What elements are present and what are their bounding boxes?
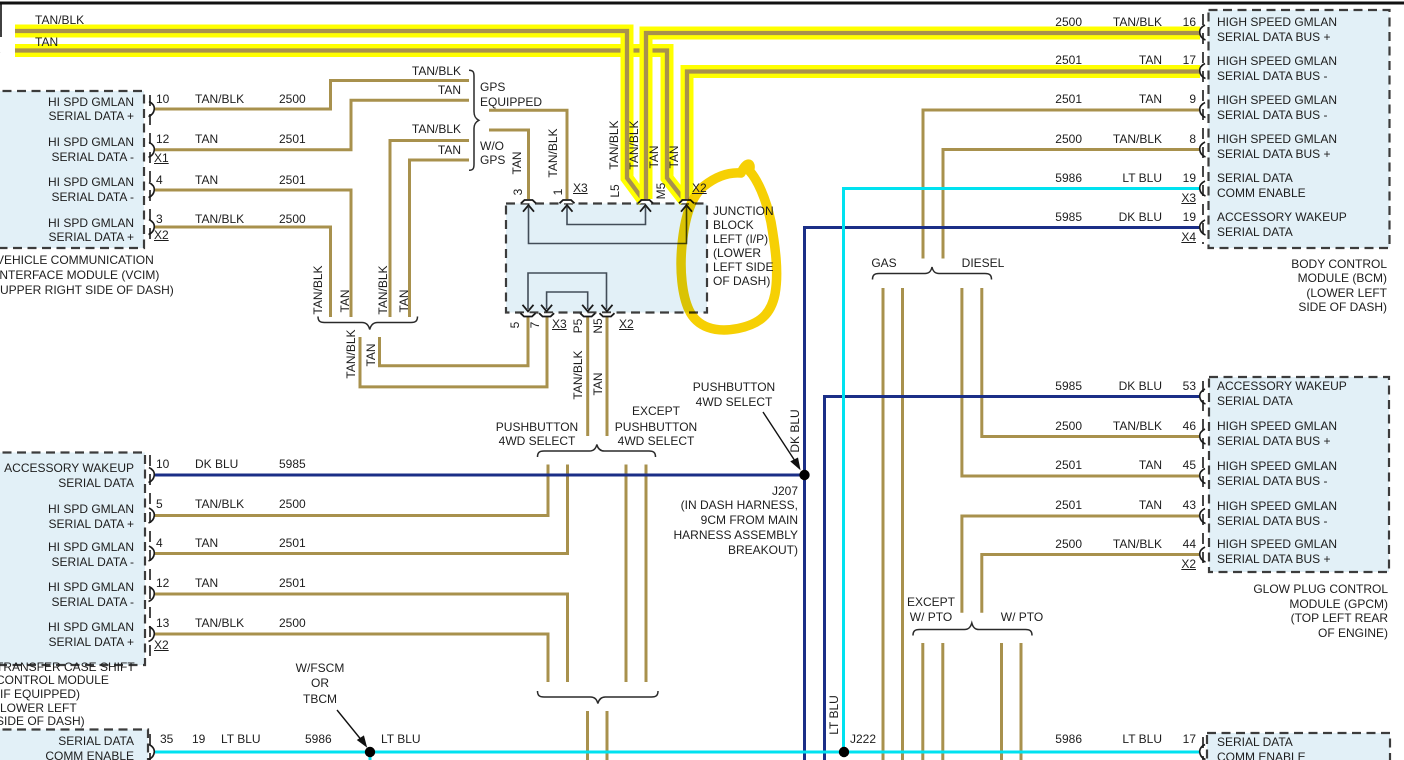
VCIM pin12 function text <box>48 136 134 148</box>
junction pin P5 <box>572 319 584 334</box>
wire BCM pin8 2500 <box>943 150 1200 259</box>
wire TCSM pin13 2500 <box>154 634 548 682</box>
GPCM connector X2 <box>1181 558 1196 570</box>
wire brace out TAN to junction pin5 <box>380 317 529 366</box>
TCSM pin terminals <box>149 468 155 483</box>
VCIM pin10 function text <box>48 96 134 108</box>
wire GAS pair <box>882 288 885 760</box>
TCSM pin5 function text <box>48 503 134 515</box>
junction pin 1 <box>552 189 564 196</box>
brace bottom under TCSM wires <box>538 691 659 704</box>
label TAN/BLK w/o-gps stub <box>412 123 461 135</box>
module box VCIM <box>0 91 144 248</box>
wire TCSM pin5 2500 <box>154 465 548 516</box>
brace W/PTO <box>913 623 1032 636</box>
wire GPCM pin43 <box>962 516 1200 613</box>
scallop bumps bottom edge <box>521 313 536 316</box>
wire GPCM pin53 5985 <box>825 397 1201 760</box>
BCM pin9 function text <box>1217 94 1337 106</box>
label TAN gps-equipped stub <box>438 84 461 96</box>
wire TAN left bus <box>15 51 685 202</box>
callout W/FSCM OR TBCM <box>296 662 345 674</box>
option label GPS EQUIPPED <box>480 81 505 93</box>
wire DIESEL to GPCM pin46 <box>982 288 1200 437</box>
junction connector X3 top <box>573 182 588 194</box>
connector line GPCM <box>1202 381 1204 568</box>
VCIM connector X1 <box>154 152 169 164</box>
junction connector X2 top <box>692 182 707 194</box>
scallop bumps top edge <box>521 200 536 203</box>
wire TAN right bus <box>687 72 1200 200</box>
option label EXCEPT W/PTO <box>907 596 955 608</box>
left edge tick <box>0 4 2 37</box>
label TAN w/o-gps drop <box>398 289 410 312</box>
junction pin L5 <box>609 184 621 197</box>
arrowheads bottom pins <box>523 305 534 312</box>
bottom-left module pin terminal <box>149 745 155 760</box>
label LT BLU after junction <box>381 733 421 745</box>
wire GPS equipped to junction pin1 <box>489 110 567 199</box>
BCM pin19 X3 function text <box>1217 172 1293 184</box>
wire DIESEL to GPCM pin45 <box>962 288 1200 476</box>
TCSM pin12 function text <box>48 581 134 593</box>
wire TCSM pin4 2501 <box>154 465 568 554</box>
junction connector X3 bottom <box>552 318 567 330</box>
TCSM pin 13 wire labels TAN/BLK 2500 <box>156 617 169 629</box>
GPCM pin44 function text <box>1217 538 1337 550</box>
label TAN/BLK bus wire 2500 <box>35 14 84 26</box>
BCM pin 9 wire labels 2501 TAN <box>1055 93 1082 105</box>
module name GPCM <box>1253 583 1388 595</box>
brace 4-wire group <box>318 317 418 330</box>
option label W/O GPS <box>480 140 504 152</box>
label TAN/BLK junction P5 wire <box>572 350 584 399</box>
module name TCSM <box>0 661 135 673</box>
wire TAN/BLK right bus <box>646 33 1200 199</box>
connector line TCSM <box>149 455 151 661</box>
arrow pushbutton to J207 <box>763 412 797 464</box>
BCM pin8 function text <box>1217 133 1337 145</box>
option label DIESEL <box>962 257 1005 269</box>
TCSM pin13 function text <box>48 621 134 633</box>
callout PUSHBUTTON 4WD SELECT for J207 <box>693 381 775 393</box>
label TAN/BLK gps-equipped stub <box>412 65 461 77</box>
wire below bottom brace pair <box>586 711 589 760</box>
inner link pin1 to L5/M5 <box>567 207 646 225</box>
wire junction P5 down <box>586 317 589 437</box>
module box GPCM <box>1209 377 1389 572</box>
label TAN/BLK bus drop L5 <box>608 120 620 169</box>
module name BCM <box>1291 258 1387 270</box>
VCIM pin 3 wire labels TAN/BLK 2500 <box>156 213 163 225</box>
wire W/O GPS TAN stub <box>410 160 470 317</box>
BCM pin19 X4 function text <box>1217 211 1347 223</box>
brace GPS (vertical) <box>469 70 479 170</box>
GPCM pin 53 wire labels 5985 DK BLU <box>1055 380 1082 392</box>
wire brace out TAN/BLK to junction pin7 <box>360 317 547 387</box>
connector line BCM <box>1202 14 1204 244</box>
BCM pin terminals <box>1200 25 1206 40</box>
BCM pin 19 wire labels 5986 LT BLU <box>1055 172 1082 184</box>
connector line VCIM <box>149 95 151 245</box>
wire TAN/BLK left bus <box>15 31 644 201</box>
BCM pin 19 wire labels 5985 DK BLU <box>1055 211 1082 223</box>
module box BCM <box>1209 10 1390 248</box>
wire W/PTO pair <box>1000 643 1003 760</box>
wire TCSM pin10 5985 to J207 <box>154 474 805 477</box>
junction pin 5 <box>509 322 521 329</box>
TCSM pin10 function text <box>4 462 134 474</box>
wire BCM X3 5986 <box>844 189 1201 753</box>
wire W/O GPS TAN/BLK stub <box>390 141 469 318</box>
VCIM pin 12 wire labels TAN 2501 <box>156 133 169 145</box>
bottom-right pin 17 wire labels 5986 LT BLU <box>1055 733 1082 745</box>
node J222 label <box>850 733 876 745</box>
TCSM pin 4 wire labels TAN 2501 <box>156 537 163 549</box>
brace GAS/DIESEL <box>873 267 992 280</box>
VCIM pin3 function text <box>48 217 134 229</box>
label TAN/BLK w/o-gps drop <box>377 265 389 314</box>
connector line bottom-right module <box>1202 737 1204 760</box>
TCSM pin 10 wire labels DK BLU 5985 <box>156 458 169 470</box>
VCIM pin 10 wire labels TAN/BLK 2500 <box>156 93 169 105</box>
module name VCIM <box>0 254 154 266</box>
junction block box <box>506 204 707 313</box>
wire GPCM pin44 <box>982 555 1200 613</box>
junction pin M5 <box>655 183 667 200</box>
option label GAS <box>871 257 896 269</box>
bottom-left pin 35 wire labels 19 LT BLU 5986 <box>160 733 173 745</box>
label TAN/BLK to junction pin7 <box>345 329 357 378</box>
brace pushbutton top <box>538 445 656 458</box>
BCM pin17 function text <box>1217 55 1337 67</box>
label TAN junction pin3 feed <box>511 151 523 174</box>
GPCM pin43 function text <box>1217 500 1337 512</box>
GPCM pin terminals <box>1200 389 1206 404</box>
TCSM pin4 function text <box>48 541 134 553</box>
TCSM pin 12 wire labels TAN 2501 <box>156 577 169 589</box>
module box bottom-right serial data <box>1207 733 1390 760</box>
BCM pin 17 wire labels 2501 TAN <box>1055 54 1082 66</box>
wire stub below FSCM junction <box>369 752 372 760</box>
junction pin 7 <box>529 322 541 329</box>
GPCM pin 44 wire labels 2500 TAN/BLK <box>1055 538 1082 550</box>
connector line bottom-left module <box>149 734 151 760</box>
VCIM pin terminals <box>149 102 155 117</box>
node J207 label <box>772 485 798 497</box>
wire W/O GPS to junction pin3 <box>489 130 529 199</box>
label TAN junction N5 wire <box>592 372 604 395</box>
label TAN vcim pin4 drop <box>339 289 351 312</box>
VCIM pin4 function text <box>48 176 134 188</box>
module name junction block left I/P <box>713 205 774 217</box>
wire except-W/PTO pair <box>921 643 924 760</box>
GPCM pin53 function text <box>1217 380 1347 392</box>
BCM pin16 function text <box>1217 16 1337 28</box>
GPCM pin 45 wire labels 2501 TAN <box>1055 459 1082 471</box>
GPCM pin 46 wire labels 2500 TAN/BLK <box>1055 420 1082 432</box>
label DK BLU J207 branch <box>789 409 801 452</box>
BCM connector X4 <box>1181 231 1196 243</box>
node W/FSCM junction <box>365 747 375 757</box>
label TAN to junction pin5 <box>365 343 377 366</box>
option label PUSHBUTTON 4WD SELECT <box>496 421 578 433</box>
wire BCM X4 5985 to vertical <box>805 228 1201 760</box>
TCSM connector X2 <box>154 639 169 651</box>
wire serial data comm enable bottom <box>154 751 1200 754</box>
wire BCM pin9 2501 <box>923 110 1200 259</box>
inner link pin7 to P5 <box>547 292 588 309</box>
wire VCIM pin10 2500 <box>154 81 469 110</box>
label TAN bus drop M5 <box>648 145 660 168</box>
module box bottom-left serial data <box>0 730 148 760</box>
bottom-left module function text <box>58 735 134 747</box>
bottom-right module pin terminal <box>1200 745 1206 760</box>
arrowheads top pins <box>523 205 534 212</box>
BCM connector X3 <box>1181 192 1196 204</box>
BCM pin 8 wire labels 2500 TAN/BLK <box>1055 133 1082 145</box>
bottom-right module function text <box>1217 736 1293 748</box>
label TAN/BLK junction pin1 feed <box>547 128 559 177</box>
inner link pin3 to X2 <box>529 207 687 244</box>
GPCM pin 43 wire labels 2501 TAN <box>1055 499 1082 511</box>
label TAN bus wire 2501 <box>35 36 58 48</box>
junction pin N5 <box>592 318 604 333</box>
option label EXCEPT PUSHBUTTON 4WD SELECT <box>632 405 680 417</box>
edge label 2 <box>0 43 1 55</box>
module box TCSM <box>0 453 145 666</box>
node J222 <box>839 747 849 757</box>
GPCM pin46 function text <box>1217 420 1337 432</box>
wire VCIM pin4 2501 <box>154 190 351 317</box>
option label W/PTO <box>1001 611 1043 623</box>
wire TCSM pin12 2501 <box>154 594 568 682</box>
wire VCIM pin12 2501 <box>154 100 469 150</box>
label LT BLU J222 branch <box>828 695 840 735</box>
label TAN w/o-gps stub <box>438 144 461 156</box>
label TAN/BLK vcim pin3 drop <box>312 265 324 314</box>
wire VCIM pin3 2500 <box>154 227 331 317</box>
wire junction N5 down <box>606 317 609 437</box>
BCM pin 16 wire labels 2500 TAN/BLK <box>1055 16 1082 28</box>
node J207 <box>799 470 809 480</box>
arrow FSCM to junction <box>337 710 363 742</box>
TCSM pin 5 wire labels TAN/BLK 2500 <box>156 498 163 510</box>
junction connector X2 bottom <box>619 318 634 330</box>
top border <box>0 2 1404 5</box>
GPCM pin45 function text <box>1217 460 1337 472</box>
edge label 1 <box>0 21 1 33</box>
wire except-pushbutton pair <box>625 465 628 683</box>
label TAN/BLK bus drop to BCM <box>628 120 640 169</box>
VCIM pin 4 wire labels TAN 2501 <box>156 174 163 186</box>
inner link pin5 to N5 <box>528 273 607 309</box>
VCIM connector X2 <box>154 229 169 241</box>
junction pin 3 <box>512 189 524 196</box>
label TAN bus drop to BCM <box>668 145 680 168</box>
